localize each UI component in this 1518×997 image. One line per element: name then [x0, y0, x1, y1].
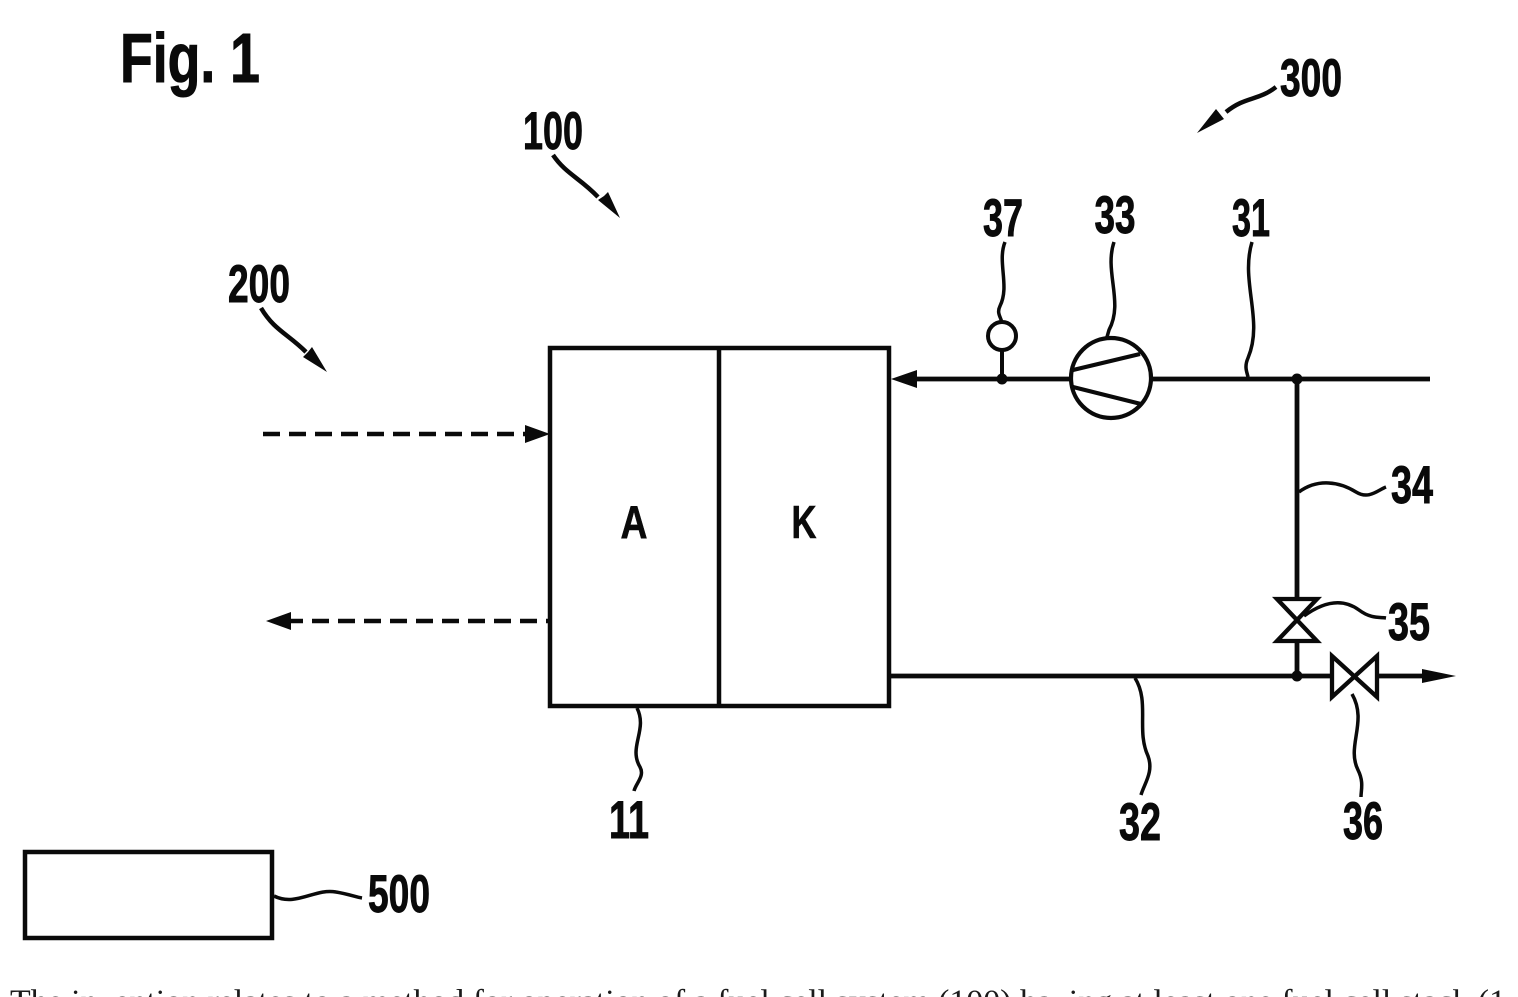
svg-text:Fig. 1: Fig. 1 [120, 19, 260, 97]
leader arrow for 300 [1226, 87, 1276, 112]
svg-text:300: 300 [1280, 49, 1342, 108]
leader arrow for 200 [261, 308, 306, 352]
leader for 500 [274, 891, 362, 899]
sensor stem [1000, 350, 1004, 379]
cathode supply line 31 (top) [912, 377, 1071, 382]
dashed outlet arrow (anode out) [286, 619, 550, 624]
valve 36 [1332, 656, 1377, 697]
compressor 33 [1071, 338, 1151, 418]
leader for 11 [634, 708, 641, 791]
svg-text:36: 36 [1343, 792, 1383, 851]
svg-text:K: K [792, 496, 817, 548]
arrowhead into box [891, 370, 917, 388]
leader for 33 [1107, 242, 1115, 337]
cathode exhaust line 32 (bottom) [889, 674, 1332, 679]
valve 35 [1277, 599, 1317, 641]
leader for 35 [1304, 603, 1386, 618]
svg-text:200: 200 [228, 255, 290, 314]
leader for 31 [1246, 242, 1254, 377]
sensor 37 circle [988, 322, 1016, 350]
svg-text:A: A [621, 496, 648, 548]
leader for 34 [1299, 483, 1386, 495]
leader for 37 [999, 242, 1005, 324]
leader arrow for 100 [553, 155, 598, 197]
svg-text:33: 33 [1095, 186, 1136, 245]
leader for 32 [1135, 678, 1150, 795]
bypass line 34 (vertical) [1295, 379, 1300, 601]
svg-text:The invention relates to a met: The invention relates to a method for op… [10, 984, 1506, 997]
leader for 36 [1352, 694, 1362, 797]
svg-text:34: 34 [1391, 456, 1433, 515]
svg-text:32: 32 [1119, 793, 1161, 852]
outlet line after valve 36 [1377, 674, 1430, 679]
node junction bottom [1292, 671, 1303, 682]
node junction top [1292, 374, 1303, 385]
svg-text:37: 37 [983, 189, 1023, 248]
anode/cathode divider [717, 348, 722, 706]
svg-text:35: 35 [1388, 593, 1430, 652]
control unit box 500 [25, 852, 272, 938]
svg-text:500: 500 [368, 865, 430, 924]
dashed inlet arrow (anode in) [263, 432, 534, 437]
svg-text:11: 11 [609, 791, 649, 850]
fuel cell stack box 11 [550, 348, 889, 706]
svg-text:31: 31 [1232, 189, 1270, 248]
svg-text:100: 100 [523, 102, 583, 161]
junction dot at sensor [997, 374, 1008, 385]
